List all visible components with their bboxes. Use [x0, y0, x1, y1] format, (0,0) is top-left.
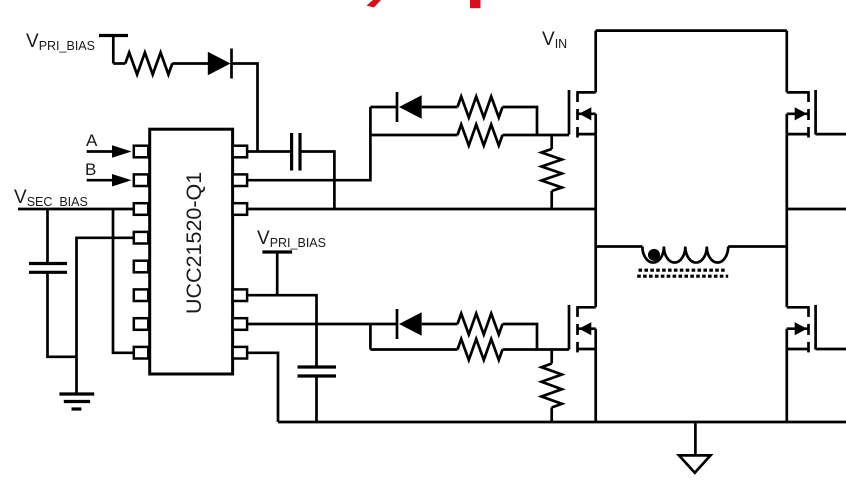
svg-text:VPRI_BIAS: VPRI_BIAS: [257, 228, 326, 250]
U1 right pin row 6: [233, 289, 248, 301]
power tap VPRI_BIAS T-bar (middle): [262, 250, 292, 253]
wire: bias stem to pin VDDB wire: [276, 252, 279, 295]
transistor Q1 (top-left) (N-MOSFET): [569, 90, 596, 138]
red cropped text fragment 1: [367, 0, 382, 8]
resistor R3 (top gate-source): [550, 135, 553, 149]
wire: lower branch to R2: [370, 134, 457, 137]
wire: right mid rail Q2 source to Q4 drain: [785, 134, 788, 307]
resistor R4 (bottom boost): [458, 314, 503, 335]
resistor R5 (bottom gate): [458, 339, 503, 360]
wire: D1 to R1: [422, 106, 458, 109]
wire: top diode branch: [370, 106, 396, 109]
wire: right source rail to edge: [787, 208, 846, 211]
wire: Q1 drain up: [594, 31, 597, 93]
wire: left mid rail Q1 source to Q3 drain: [594, 134, 597, 307]
wire: transformer right lead: [728, 245, 787, 248]
transformer T1 primary winding: [642, 247, 728, 263]
wire: pin OUTB bottom to diode branch: [247, 323, 396, 326]
arrow into pin A: [112, 145, 132, 158]
U1 left pin 1: [134, 146, 149, 158]
wire: pin VDDB to bypass cap: [247, 295, 316, 366]
op-amp/driver U1 UCC21520-Q1 body: [150, 129, 233, 374]
wire: R5 to Q3 gate: [503, 348, 570, 351]
U1 right pin row 2: [233, 174, 248, 186]
wire: ground stem: [694, 422, 697, 455]
transistor Q3 (bottom-left) (N-MOSFET): [569, 305, 596, 353]
U1 left pin 4: [134, 232, 149, 244]
wire: R4 corner down: [503, 324, 538, 350]
capacitor C1: [29, 262, 67, 265]
wire: VSEC_BIAS to pin 3: [18, 208, 134, 211]
transformer polarity dot: [648, 249, 660, 261]
wire: transformer left lead: [596, 245, 643, 248]
wire: pin OUTB up to gate network: [247, 107, 370, 180]
U1 left pin 7: [134, 318, 149, 330]
wire: cap to corner down to SW node rail: [300, 152, 334, 210]
U1 right pin row 1: [233, 146, 248, 158]
wire: pin OUTA to bootstrap cap: [247, 150, 292, 153]
red cropped text fragment 2: [470, 0, 481, 8]
wire: Q3 source down to gnd rail: [594, 349, 597, 422]
wire: bias stem down: [112, 36, 115, 64]
wire: Q4 gate out to right edge: [816, 348, 846, 351]
U1 right pin row 3: [233, 203, 248, 215]
wire: C2 to gnd rail: [315, 376, 318, 422]
wire: pin VSSA rail to Q1 source: [247, 208, 596, 211]
ground (power stage, open triangle): [679, 455, 711, 472]
wire: Q2 drain down: [785, 31, 788, 93]
wire: bottom ground rail: [278, 421, 846, 424]
diode D_bias: [208, 52, 231, 75]
transistor Q4 (bottom-right) (N-MOSFET): [787, 305, 816, 353]
resistor R6 (bottom gate-source): [550, 350, 553, 364]
wire: diode to corner, down to OUTA pin: [232, 64, 258, 152]
wire: stem to resistor: [113, 62, 125, 65]
U1 left pin 3: [134, 203, 149, 215]
wire: branch down to cap C1: [46, 209, 49, 264]
wire: Q4 source down to gnd rail: [785, 349, 788, 422]
capacitor C2 (bypass): [298, 365, 337, 368]
resistor R_bias: [125, 53, 172, 75]
transformer core dashes row 2: [637, 275, 728, 278]
U1 right pin row 7: [233, 318, 248, 330]
wire: resistor to diode: [172, 62, 208, 65]
wire: Q2 gate out to right edge: [816, 133, 846, 136]
wire: VIN top rail: [596, 29, 787, 32]
power tap VPRI_BIAS T-bar: [99, 34, 128, 37]
svg-text:UCC21520-Q1: UCC21520-Q1: [182, 172, 206, 314]
wire: R2 to Q1 gate: [503, 134, 570, 137]
wire: pin 4 to ground vertical: [77, 238, 134, 393]
U1 left pin 6: [134, 289, 149, 301]
diode D1 (top gate): [399, 95, 422, 118]
wire: input A: [87, 150, 113, 153]
wire: VSEC_BIAS branch to pin 8: [113, 209, 134, 353]
wire: branch down to lower row: [369, 324, 372, 350]
wire: D2 to R4: [422, 323, 458, 326]
resistor R2 (top gate): [458, 125, 503, 146]
U1 right pin row 8: [233, 347, 248, 359]
svg-text:A: A: [86, 131, 98, 150]
transformer core dashes row 1: [639, 269, 727, 272]
wire: C1 bottom to ground run: [48, 272, 77, 357]
U1 left pin 8: [134, 347, 149, 359]
resistor R1 (top boost): [458, 97, 503, 118]
svg-text:VSEC_BIAS: VSEC_BIAS: [14, 187, 88, 209]
arrow into pin B: [112, 174, 132, 187]
U1 left pin 2: [134, 174, 149, 186]
transistor Q2 (top-right) (N-MOSFET): [787, 90, 816, 138]
capacitor C_boot: [290, 133, 293, 171]
wire: R1 to corner down: [503, 107, 538, 135]
svg-text:VIN: VIN: [542, 29, 567, 51]
wire: input B: [87, 179, 113, 182]
diode D2 (bottom gate): [399, 312, 422, 335]
U1 left pin 5: [134, 261, 149, 273]
wire: pin VSSB down to gnd rail: [247, 353, 278, 422]
ground (VSEC side): [59, 392, 94, 395]
wire: lower branch to R5: [370, 348, 457, 351]
svg-text:B: B: [85, 160, 96, 179]
svg-text:VPRI_BIAS: VPRI_BIAS: [26, 31, 95, 53]
